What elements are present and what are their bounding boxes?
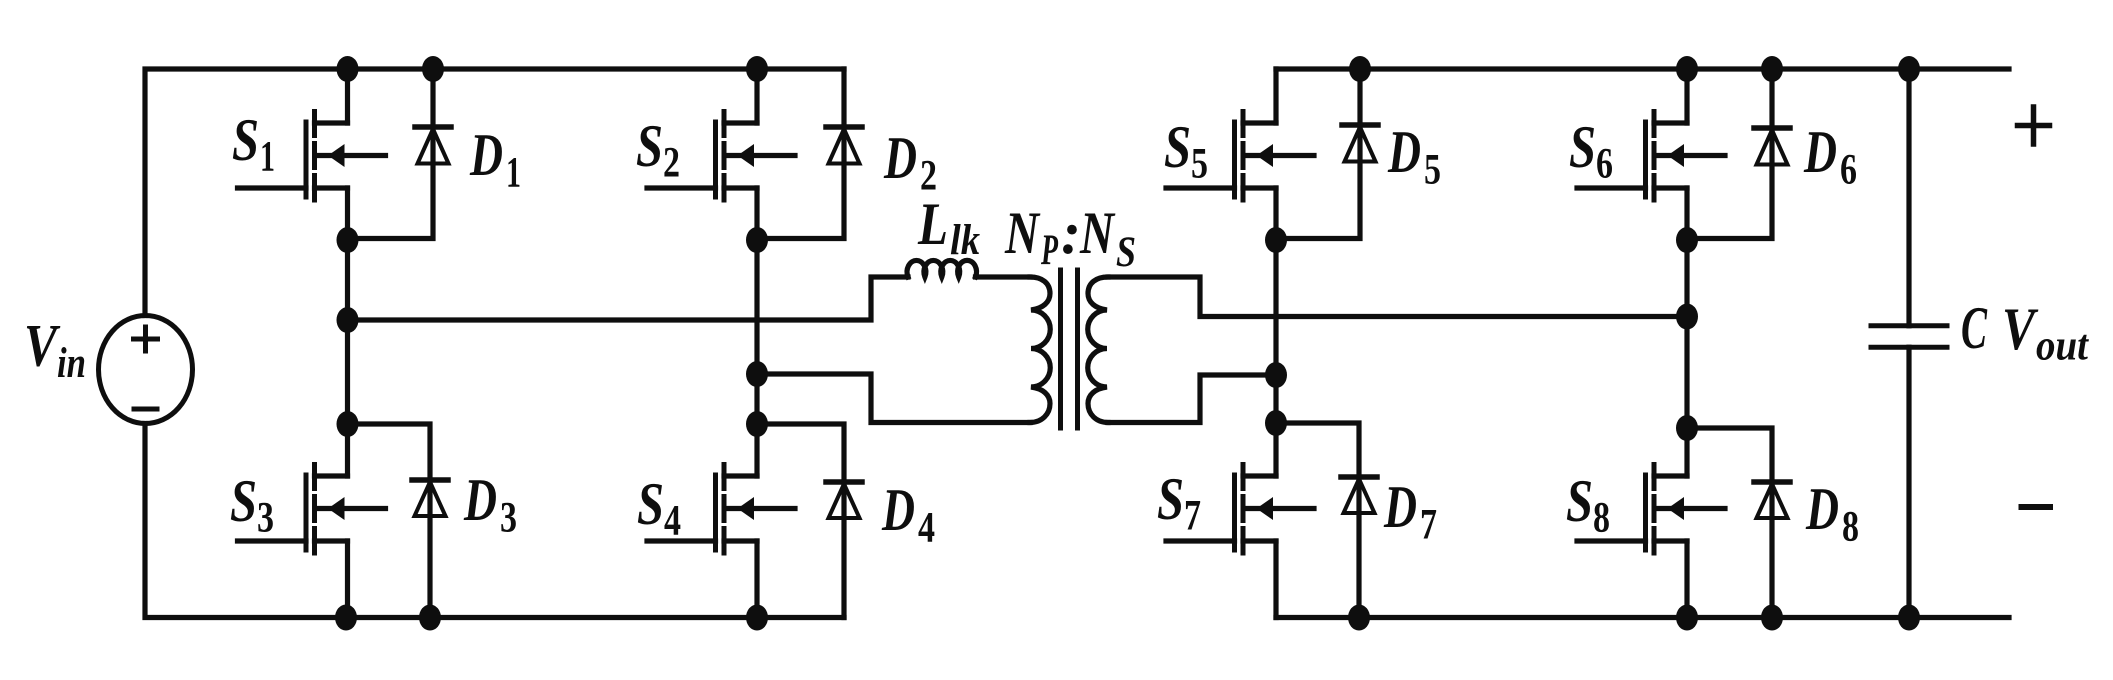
node: bridge B midpoint (1676, 304, 1698, 330)
label S8 (1566, 468, 1610, 542)
label D7 (1383, 474, 1437, 549)
wire: node A to leakage inductor (348, 277, 909, 320)
label D5 (1387, 119, 1441, 194)
label S3 (230, 468, 274, 542)
svg-text:S: S (1164, 114, 1191, 180)
transistor S1 (238, 112, 386, 201)
node: S8 drain - D8 (1676, 415, 1698, 441)
transistor S3 (238, 465, 386, 554)
wire: input bottom rail (Vin- to D4 column) (145, 424, 844, 618)
node: bottom rail / D3 (419, 605, 441, 631)
node: S4 drain - D4 (746, 411, 768, 437)
svg-text:lk: lk (950, 217, 980, 264)
svg-text:D: D (1387, 119, 1421, 185)
svg-text:7: 7 (1420, 502, 1437, 549)
wire: capacitor bottom lead (1906, 347, 1911, 617)
svg-text:P: P (1040, 227, 1058, 274)
label S1 (232, 107, 275, 181)
voltage source Vin (99, 316, 193, 424)
svg-text:S: S (1157, 466, 1184, 532)
node: top rail / D1 (422, 56, 444, 82)
svg-text:2: 2 (663, 140, 680, 187)
svg-text:4: 4 (918, 505, 935, 552)
label D8 (1805, 476, 1859, 551)
label D2 (883, 125, 937, 200)
svg-text:3: 3 (257, 495, 274, 542)
svg-text:5: 5 (1424, 147, 1441, 194)
transistor S7 (1166, 465, 1314, 554)
svg-text:L: L (917, 191, 948, 257)
node: bottom rail / D7 (1348, 605, 1370, 631)
node: bottom rail / D8 (1761, 605, 1783, 631)
node: top rail / D5 (1349, 56, 1371, 82)
node: S2 source - D2 (746, 227, 768, 253)
node: S1 source - D1 (337, 227, 359, 253)
label S7 (1157, 466, 1201, 540)
node: S5 source - D5 (1265, 227, 1287, 253)
wire: inductor to primary winding (976, 274, 1031, 279)
svg-text:N: N (1004, 200, 1041, 266)
label D6 (1803, 119, 1857, 194)
node: S3 drain - D3 (337, 411, 359, 437)
svg-text:D: D (469, 122, 503, 188)
plus terminal mark (2018, 107, 2050, 144)
node: bottom rail / S4 leg (746, 605, 768, 631)
diode D5 (1342, 125, 1378, 162)
svg-text:V: V (24, 313, 61, 379)
diode D3 (412, 480, 448, 516)
node: top rail / D6 (1761, 56, 1783, 82)
svg-text:S: S (1569, 114, 1596, 180)
svg-text:6: 6 (1840, 147, 1857, 194)
label D1 (469, 122, 521, 197)
node: top rail / capacitor (1898, 56, 1920, 82)
svg-text::: : (1061, 200, 1081, 266)
label S4 (637, 471, 681, 545)
wire: D3 branch (348, 424, 431, 618)
node: primary bottom tap (746, 361, 768, 387)
capacitor C (1871, 326, 1947, 347)
wire: D8 branch (1687, 428, 1772, 618)
svg-text:S: S (636, 113, 663, 179)
transistor S5 (1166, 112, 1314, 201)
diode D4 (826, 482, 862, 518)
node: bottom rail / S3 leg (335, 605, 357, 631)
wire: S1/S3 leg segments (345, 69, 350, 618)
transformer core (1061, 270, 1078, 428)
node: S7 drain - D7 (1265, 410, 1287, 436)
wire: D1 branch (348, 69, 434, 239)
transistor S2 (647, 112, 795, 201)
svg-text:6: 6 (1596, 141, 1613, 188)
svg-text:8: 8 (1593, 495, 1610, 542)
node: bottom rail / capacitor (1898, 605, 1920, 631)
svg-text:N: N (1079, 200, 1116, 266)
diode D8 (1754, 482, 1790, 518)
svg-text:S: S (637, 471, 664, 537)
minus terminal mark (2022, 504, 2051, 510)
transformer secondary winding (1088, 277, 1108, 423)
wire: output bottom rail (1276, 615, 2009, 620)
diode D6 (1754, 128, 1790, 165)
node: top rail / S6 leg (1676, 56, 1698, 82)
wire: S6/S8 leg segments (1684, 69, 1689, 618)
node: bottom rail / S8 leg (1676, 605, 1698, 631)
svg-text:C: C (1961, 295, 1988, 361)
label C (1961, 295, 1988, 361)
svg-text:1: 1 (506, 150, 521, 197)
label S2 (636, 113, 680, 187)
svg-text:S: S (1566, 468, 1593, 534)
svg-text:3: 3 (500, 495, 517, 542)
wire: input top rail (Vin+ to D2 column) (145, 69, 844, 316)
node: top rail / S1 leg (337, 56, 359, 82)
svg-text:S: S (232, 107, 259, 173)
diode D7 (1341, 477, 1377, 513)
label S5 (1164, 114, 1208, 188)
label Vout (2002, 296, 2090, 370)
transformer primary winding (1030, 277, 1050, 423)
label Llk (917, 191, 980, 264)
wire: D6 branch (1687, 69, 1772, 239)
label D3 (463, 467, 517, 542)
node: secondary bottom tap (1265, 362, 1287, 388)
transistor S4 (647, 465, 795, 554)
svg-text:D: D (881, 477, 915, 543)
transistor S8 (1577, 465, 1725, 554)
svg-text:D: D (463, 467, 497, 533)
svg-text:4: 4 (664, 498, 681, 545)
wire: S2/S4 leg segments (754, 69, 759, 618)
label Vin (24, 313, 86, 388)
svg-text:D: D (883, 125, 917, 191)
wire: secondary top to S6/S8 mid node (1108, 277, 1687, 317)
svg-text:D: D (1805, 476, 1839, 542)
wire: secondary bottom to S5/S7 leg (1108, 375, 1276, 423)
svg-text:V: V (2002, 296, 2039, 362)
transistor S6 (1577, 112, 1725, 201)
svg-text:S: S (230, 468, 257, 534)
node: top rail / S2 leg (746, 56, 768, 82)
node: S6 source - D6 (1676, 227, 1698, 253)
label S6 (1569, 114, 1613, 188)
wire: D4 branch (757, 424, 844, 618)
label D4 (881, 477, 935, 552)
svg-text:out: out (2036, 323, 2090, 370)
wire: capacitor top lead (1906, 69, 1911, 326)
wire: primary bottom return to S2/S4 leg (757, 374, 1030, 423)
wire: D5 branch (1276, 69, 1360, 239)
svg-text:1: 1 (260, 134, 275, 181)
svg-text:D: D (1803, 119, 1837, 185)
node: bridge A midpoint (337, 307, 359, 333)
wire: D7 branch (1276, 423, 1359, 618)
diode D2 (826, 127, 862, 164)
svg-text:8: 8 (1842, 504, 1859, 551)
svg-text:D: D (1383, 474, 1417, 540)
svg-text:in: in (57, 340, 86, 387)
svg-text:7: 7 (1184, 493, 1201, 540)
label turns ratio NP:NS (1004, 200, 1136, 276)
wire: D2 branch (757, 69, 844, 239)
svg-text:5: 5 (1191, 141, 1208, 188)
inductor Llk (907, 260, 976, 277)
wire: S5/S7 leg segments (1273, 69, 1278, 618)
wire: output top rail (1276, 66, 2009, 71)
svg-text:S: S (1116, 229, 1136, 276)
diode D1 (415, 127, 451, 164)
